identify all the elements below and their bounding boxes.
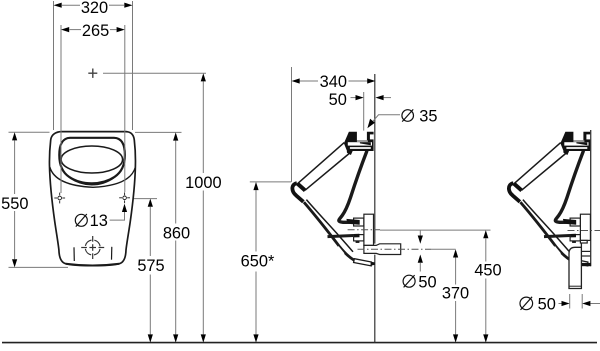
svg-text:550: 550 [1, 195, 28, 213]
outlet flange plate [364, 214, 374, 245]
fixing hole left [54, 193, 65, 204]
svg-text:265: 265 [82, 22, 109, 40]
dim 370 [431, 248, 456, 250]
dim 860 [135, 131, 182, 133]
wall line [374, 74, 376, 244]
svg-text:13: 13 [90, 212, 108, 230]
vertical outlet pipe [569, 243, 581, 289]
inner foot vertical left [73, 247, 75, 261]
svg-text:650*: 650* [241, 253, 275, 271]
outlet pipe [364, 244, 401, 255]
dim O50 right [569, 294, 571, 309]
plus mark 1000 reference [88, 69, 97, 78]
dim O50 (middle) [419, 231, 421, 236]
dim 320 [53, 1, 55, 130]
outlet flange plate [580, 214, 590, 240]
bowl ellipse [61, 146, 123, 173]
dim 450 [380, 229, 491, 231]
svg-text:860: 860 [163, 225, 190, 243]
bottom sag line [66, 264, 120, 266]
svg-text:50: 50 [538, 296, 556, 314]
svg-text:1000: 1000 [185, 174, 221, 192]
mounting block [344, 132, 374, 151]
rim front band lower edge [305, 153, 350, 190]
wall line [590, 130, 592, 266]
end cap black tick to wall [371, 262, 375, 266]
bottom shell inner edge [306, 200, 353, 252]
inner foot vertical right [111, 247, 113, 260]
flange steps [354, 218, 364, 226]
collar curve [50, 167, 136, 187]
drain cross dashed [81, 236, 104, 259]
svg-text:575: 575 [137, 257, 164, 275]
rim front band upper edge [297, 143, 344, 185]
lower trap bar [328, 235, 360, 236]
trap black bit behind pipe [578, 250, 590, 252]
leader O13 [110, 211, 125, 220]
dim 265 [60, 25, 62, 193]
svg-text:370: 370 [442, 284, 469, 302]
dim 1000 [202, 81, 204, 173]
fixing hole right [119, 192, 130, 203]
weir bar ends over steps [346, 219, 359, 225]
label O35 [402, 109, 414, 121]
label O13 [75, 214, 87, 227]
svg-text:50: 50 [329, 91, 347, 109]
block lower-left wedge [347, 151, 353, 155]
pipe centerline [358, 248, 432, 250]
floor line [2, 342, 597, 344]
shell end cap white [354, 259, 372, 266]
bottom shell outer edge [304, 202, 356, 261]
interior bowl curve [339, 151, 367, 223]
svg-text:320: 320 [81, 0, 108, 17]
svg-text:50: 50 [418, 273, 436, 291]
horizontal line from plus to 1000 dim [103, 72, 206, 74]
dim 50 (top) [363, 92, 365, 132]
dim 575 [134, 198, 157, 200]
urinal side-section body (copy) [509, 131, 590, 266]
svg-text:450: 450 [474, 261, 501, 279]
end cap black tick to wall [582, 263, 591, 266]
urinal side-section body [292, 131, 373, 266]
centerline 450 right [568, 230, 600, 232]
svg-text:340: 340 [320, 73, 347, 91]
dim 650* [250, 181, 291, 183]
urinal body outline [49, 132, 135, 266]
front tip hook [298, 184, 306, 191]
svg-text:35: 35 [419, 107, 437, 125]
shell cut slash [338, 247, 344, 254]
trap bar step [356, 237, 360, 243]
dim 340 [291, 67, 293, 182]
450 centerline dashdot [348, 229, 380, 231]
dim 550 [9, 131, 50, 133]
rim ring [59, 138, 125, 184]
